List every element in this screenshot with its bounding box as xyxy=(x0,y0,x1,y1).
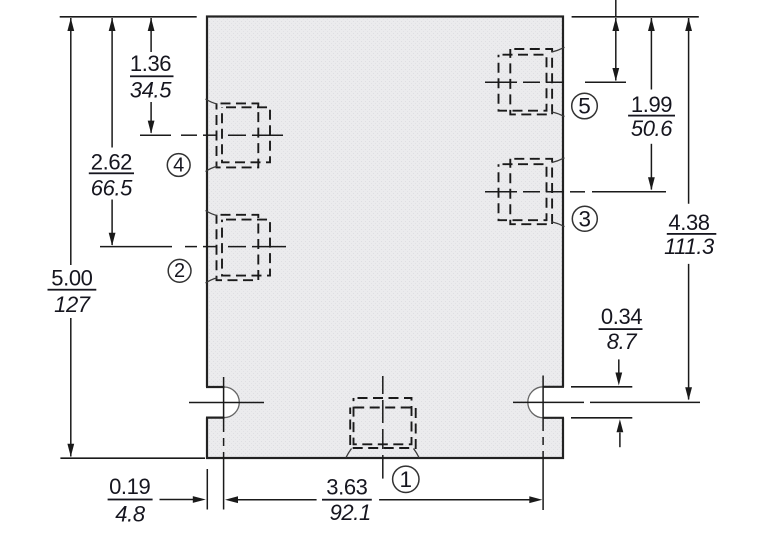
svg-text:50.6: 50.6 xyxy=(631,116,673,141)
connector C5 body (dashed, right upper) xyxy=(499,49,553,114)
connector C4 body (dashed, left upper) xyxy=(217,103,271,167)
dimension 1.36/34.5 xyxy=(130,18,174,134)
svg-text:1.36: 1.36 xyxy=(130,51,171,76)
svg-text:0.34: 0.34 xyxy=(601,304,642,329)
connector C3 edge hooks xyxy=(552,158,565,227)
dimension 0.34/8.7 xyxy=(599,304,643,447)
connector C5 edge hooks xyxy=(552,47,565,116)
svg-text:1: 1 xyxy=(400,467,413,492)
connector C5 centerline xyxy=(485,81,626,83)
dimension line to C5 (top right, cropped value) xyxy=(612,0,619,81)
left slot cutout xyxy=(205,387,240,418)
svg-text:5: 5 xyxy=(578,94,591,119)
svg-text:3: 3 xyxy=(579,206,592,231)
svg-text:0.19: 0.19 xyxy=(109,474,150,499)
svg-text:8.7: 8.7 xyxy=(607,329,638,354)
svg-text:111.3: 111.3 xyxy=(664,234,715,259)
top extension line (right of plate) xyxy=(572,16,699,18)
svg-text:34.5: 34.5 xyxy=(130,78,172,103)
connector C1 centerline (vertical) xyxy=(382,376,384,479)
connector C3 centerline xyxy=(485,191,666,193)
right slot crosshair xyxy=(513,376,700,511)
svg-text:2: 2 xyxy=(174,260,185,282)
left slot crosshair xyxy=(189,377,264,510)
connector C2 centerline xyxy=(100,246,286,248)
svg-text:4: 4 xyxy=(173,154,184,176)
dimension 4.38/111.3 xyxy=(664,18,716,400)
right slot cutout xyxy=(528,387,566,418)
balloon 1 xyxy=(393,466,419,492)
top extension line (left of plate) xyxy=(60,16,197,18)
dimension 1.99/50.6 xyxy=(628,18,675,190)
svg-text:2.62: 2.62 xyxy=(91,149,132,174)
connector C4 centerline xyxy=(140,134,283,136)
svg-text:1.99: 1.99 xyxy=(631,92,672,117)
svg-text:127: 127 xyxy=(54,292,91,317)
svg-text:66.5: 66.5 xyxy=(91,175,133,200)
bottom extension line (left of plate) xyxy=(60,457,205,459)
dimension 2.62/66.5 xyxy=(89,18,134,246)
connector C2 edge hooks xyxy=(206,211,218,284)
svg-text:4.38: 4.38 xyxy=(668,210,709,235)
connector C2 body (dashed, left lower) xyxy=(217,215,271,280)
balloon 5 xyxy=(572,93,598,119)
dimension 3.63/92.1 xyxy=(225,474,542,525)
balloon 3 xyxy=(572,206,597,231)
dimension 5.00/127 xyxy=(48,18,97,457)
svg-text:4.8: 4.8 xyxy=(115,501,146,526)
svg-text:5.00: 5.00 xyxy=(51,266,92,291)
plate outline (panel body) xyxy=(207,17,563,459)
svg-text:92.1: 92.1 xyxy=(330,500,371,525)
dimension 0.19/4.8 xyxy=(108,474,206,526)
bottom extension line (plate left edge) xyxy=(206,469,208,510)
connector C1 body (dashed, bottom center) xyxy=(350,398,416,448)
connector C3 body (dashed, right lower) xyxy=(499,159,553,224)
right slot extension lines xyxy=(571,387,632,418)
connector C4 edge hooks xyxy=(206,99,218,172)
balloon 4 xyxy=(167,154,190,177)
connector C1 edge hooks xyxy=(346,449,419,458)
svg-text:3.63: 3.63 xyxy=(326,474,367,499)
balloon 2 xyxy=(168,259,191,282)
